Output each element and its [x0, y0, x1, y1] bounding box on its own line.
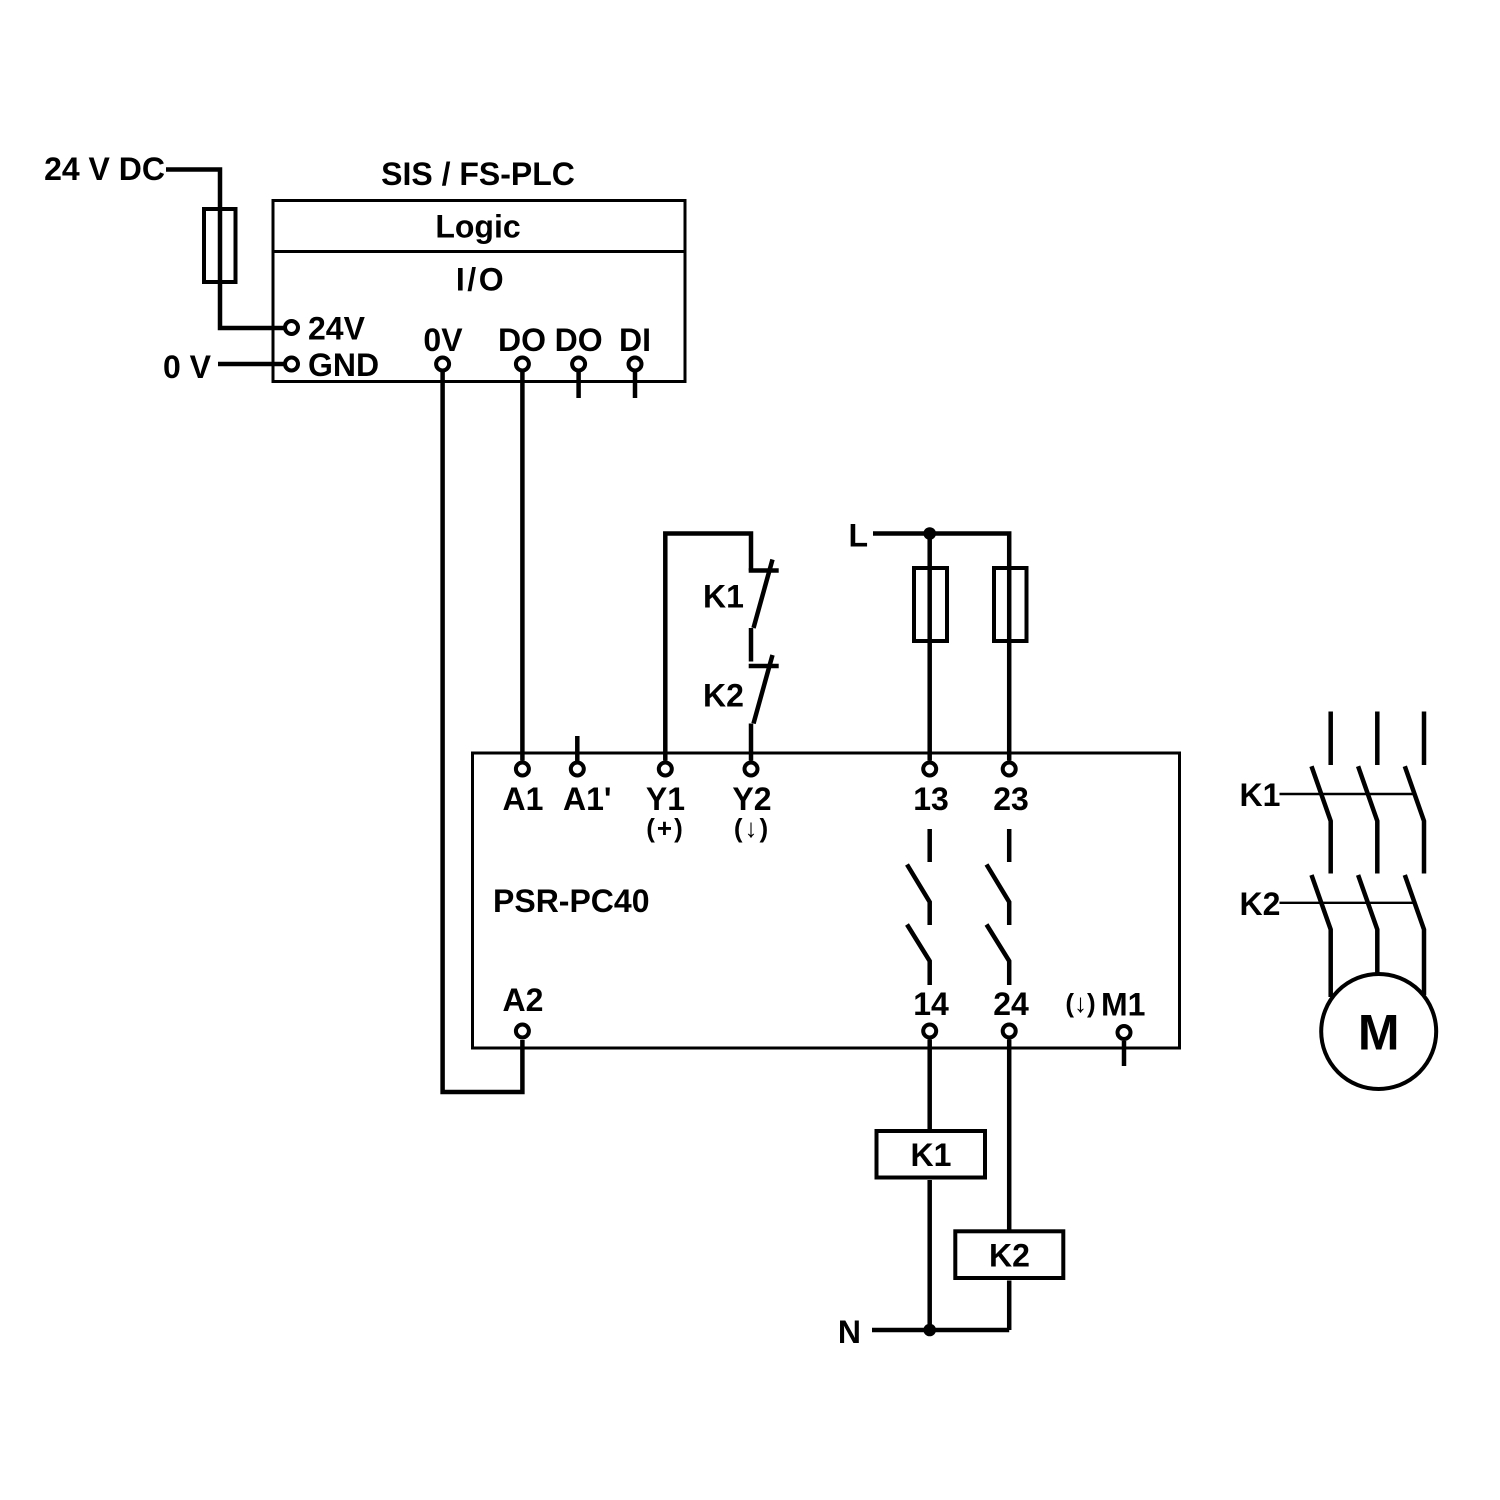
wire coil K1 to N: [927, 1180, 932, 1330]
terminal 23: [1003, 763, 1016, 776]
K2 linkage line: [1280, 902, 1414, 904]
wire N line: [872, 1328, 1009, 1333]
wire 0V to A2 (down, right, up): [443, 371, 523, 1093]
terminal Y2: [745, 763, 758, 776]
coil K2: [955, 1231, 1063, 1278]
wire 24 V DC to fuse F1: [166, 170, 220, 208]
terminal A1' with stub: [575, 736, 580, 762]
svg-text:24V: 24V: [308, 311, 366, 347]
contactor K2 pole 1: [1312, 875, 1331, 997]
wire 14 to coil K1: [927, 1040, 932, 1130]
contact K1 (NC) fixed bar: [749, 568, 779, 573]
wire coil K2 to N: [1007, 1281, 1012, 1331]
contactor K1 pole 3: [1405, 766, 1424, 873]
svg-text:13: 13: [913, 781, 949, 817]
svg-text:DO: DO: [498, 322, 546, 358]
svg-text:24: 24: [993, 986, 1029, 1022]
wire 24 to coil K2: [1007, 1040, 1012, 1230]
wire between K1 and K2 contacts: [749, 628, 754, 662]
phase stub 3: [1422, 712, 1427, 766]
K1 linkage line: [1280, 793, 1414, 795]
terminal GND: [285, 358, 298, 371]
terminal 13: [923, 763, 936, 776]
phase stub 1: [1328, 712, 1333, 766]
wire L junction down to fuse F2: [927, 534, 932, 567]
svg-text:23: 23: [993, 781, 1029, 817]
wire inside fuse F2: [927, 566, 932, 643]
fuse F2: [914, 568, 947, 641]
svg-text:PSR-PC40: PSR-PC40: [493, 883, 650, 919]
svg-text:A1': A1': [563, 781, 612, 817]
wire K2 contact to terminal Y2: [749, 724, 754, 761]
phase stub 2: [1375, 712, 1380, 766]
svg-text:(+): (+): [646, 813, 685, 843]
svg-text:K2: K2: [989, 1238, 1030, 1274]
wire fuse F3 to terminal 23: [1007, 643, 1012, 761]
wire 0 V to terminal GND: [218, 362, 284, 367]
svg-text:K2: K2: [1240, 886, 1281, 922]
terminal 24V: [285, 321, 298, 334]
contactor K2 pole 3: [1405, 875, 1424, 995]
svg-text:M: M: [1358, 1005, 1400, 1061]
svg-text:24 V DC: 24 V DC: [44, 151, 165, 187]
fuse F3: [994, 568, 1027, 641]
contact 13-14 stub: [927, 829, 932, 862]
wire fuse F1 to terminal 24V: [220, 284, 284, 328]
svg-text:(↓): (↓): [734, 813, 770, 843]
contactor K2 pole 2: [1358, 875, 1377, 974]
svg-text:DO: DO: [555, 322, 603, 358]
terminal 24: [1003, 1025, 1016, 1038]
svg-text:K2: K2: [703, 678, 744, 714]
terminal A2: [516, 1025, 529, 1038]
stub below M1: [1122, 1041, 1127, 1066]
svg-text:I/O: I/O: [456, 262, 506, 298]
svg-text:14: 14: [913, 986, 949, 1022]
contact K2 (NC) blade: [754, 655, 773, 724]
svg-text:Y2: Y2: [732, 781, 771, 817]
terminal M1: [1118, 1026, 1131, 1039]
svg-text:Logic: Logic: [435, 209, 520, 245]
motor M: [1321, 974, 1436, 1089]
PSR-PC40 box: [473, 753, 1180, 1048]
contact 23-24 stub: [1007, 829, 1012, 862]
contact K1 (NC) blade: [754, 560, 773, 629]
terminal 14: [923, 1025, 936, 1038]
svg-text:A1: A1: [503, 781, 544, 817]
feedback loop wire Y1 up and across: [665, 534, 751, 761]
contactor K1 pole 1: [1312, 766, 1331, 873]
wire fuse F2 to terminal 13: [927, 643, 932, 761]
contact 13-14 blade upper: [907, 865, 930, 926]
terminal DI: [629, 358, 642, 371]
svg-text:N: N: [838, 1314, 861, 1350]
svg-text:K1: K1: [1240, 777, 1281, 813]
svg-text:L: L: [848, 518, 868, 554]
junction N / coil K1: [923, 1324, 936, 1337]
terminal Y1: [659, 763, 672, 776]
contact 23-24 blade lower: [987, 925, 1010, 986]
svg-text:A2: A2: [503, 982, 544, 1018]
svg-text:(↓): (↓): [1065, 988, 1095, 1018]
coil K1: [877, 1131, 986, 1178]
svg-text:0 V: 0 V: [163, 349, 212, 385]
PLC logic divider: [273, 250, 685, 253]
contact 13-14 blade lower: [907, 925, 930, 986]
terminal A1: [516, 763, 529, 776]
terminal 0V: [436, 358, 449, 371]
fuse F1: [204, 209, 236, 282]
contact K2 (NC) fixed bar: [749, 664, 779, 669]
wire L line: [873, 534, 1009, 567]
junction L / fuse F2: [923, 527, 936, 540]
svg-text:SIS / FS-PLC: SIS / FS-PLC: [381, 156, 575, 192]
svg-text:0V: 0V: [423, 322, 463, 358]
wire DO to A1: [520, 371, 525, 761]
svg-text:M1: M1: [1101, 987, 1145, 1023]
terminal DO (second): [572, 358, 585, 371]
svg-text:GND: GND: [308, 347, 379, 383]
contactor K1 pole 2: [1358, 766, 1377, 873]
wire inside fuse F1: [218, 207, 223, 284]
svg-text:K1: K1: [703, 579, 744, 615]
stub below DO (second): [576, 371, 581, 398]
PLC box SIS / FS-PLC: [273, 201, 685, 382]
svg-text:K1: K1: [911, 1137, 952, 1173]
svg-text:Y1: Y1: [646, 781, 685, 817]
stub below DI: [633, 371, 638, 398]
wire inside fuse F3: [1007, 566, 1012, 643]
svg-text:DI: DI: [619, 322, 651, 358]
contact 23-24 blade upper: [987, 865, 1010, 926]
terminal DO (first): [516, 358, 529, 371]
